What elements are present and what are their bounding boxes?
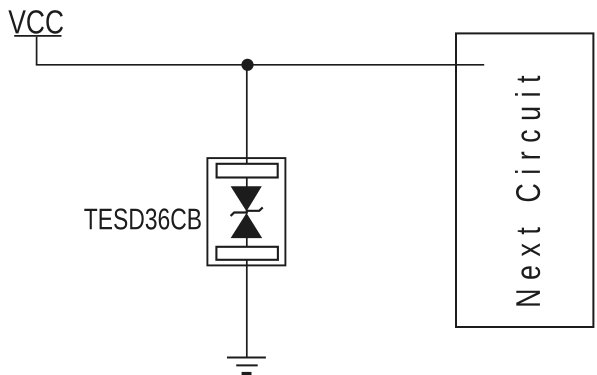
wire main horizontal VCC rail (36, 64, 484, 66)
next circuit block box (456, 33, 593, 327)
wire junction down to diode D1 (246, 65, 248, 165)
wire diode cathode to bottom pad (246, 238, 248, 248)
net label VCC (8, 10, 63, 34)
zener bar (bidirectional TVS) (231, 207, 263, 216)
wire diode to ground (246, 260, 248, 358)
ground symbol bar 2 (236, 364, 258, 366)
diode D1 bottom terminal pad (216, 247, 278, 260)
ground symbol bar 1 (227, 357, 266, 359)
diode D1 top terminal pad (217, 164, 278, 178)
diode D1 outer body box (207, 158, 285, 265)
TVS diode bottom triangle (231, 213, 263, 238)
junction dot (241, 59, 253, 71)
TVS diode top triangle (231, 186, 262, 211)
block label Next Circuit (rotated) (515, 76, 540, 306)
wire top pad to diode anode (246, 178, 248, 188)
VCC power bar (underline) (14, 35, 61, 37)
wire VCC lead vertical (36, 37, 38, 65)
ground symbol bar 3 (242, 372, 252, 375)
value label TESD36CB (84, 208, 201, 229)
